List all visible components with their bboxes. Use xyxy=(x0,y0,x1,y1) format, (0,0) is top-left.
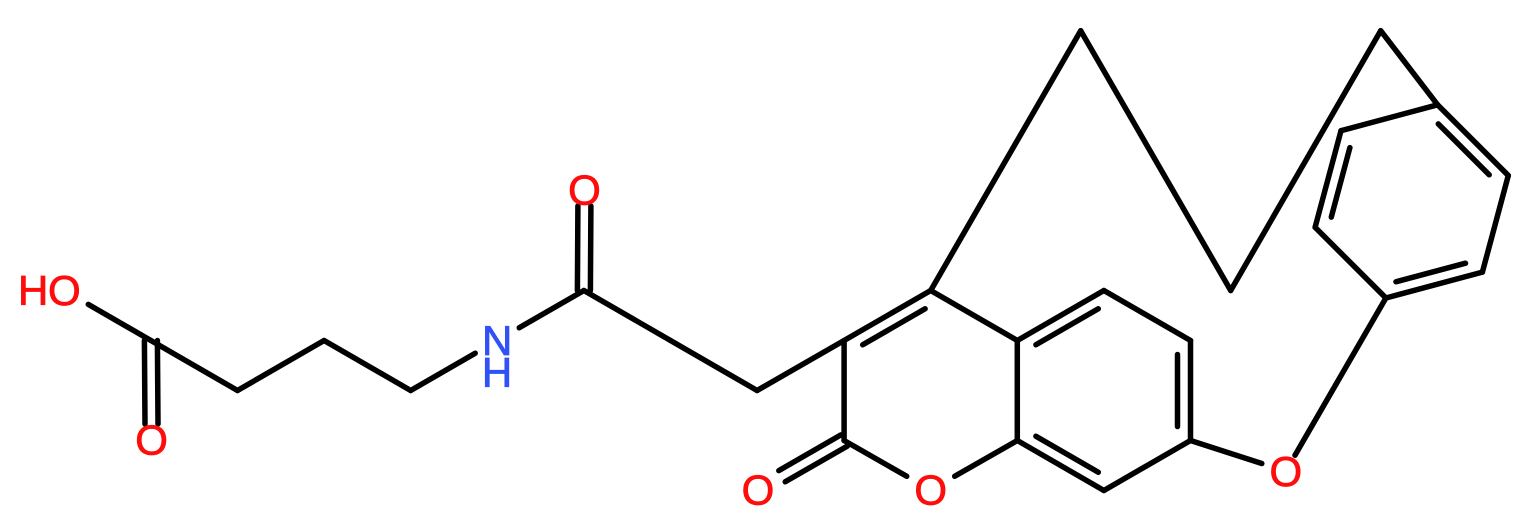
aromatic bond C4a=B5 main xyxy=(1017,291,1104,341)
bond CH2-N xyxy=(411,353,476,390)
bond A4-A5 xyxy=(1341,105,1438,131)
bond A6-W xyxy=(1315,227,1386,298)
bond HO-C carboxyl xyxy=(88,304,151,340)
aromatic bond B8=C8a inner xyxy=(1036,436,1098,472)
svg-text:O: O xyxy=(568,167,601,214)
bond Ar3-Ar2 xyxy=(841,341,847,441)
svg-text:O: O xyxy=(742,467,775,514)
macrocycle leg4 xyxy=(1381,31,1438,105)
bond C1-C2 xyxy=(151,341,238,391)
aromatic bond B6=B7 main xyxy=(1188,341,1194,441)
aromatic bond A3=A4 main xyxy=(1438,105,1509,176)
bond O1-C8a lactone xyxy=(955,441,1018,477)
bond C7-O ether xyxy=(1191,441,1262,464)
double bond amide C=O line1 xyxy=(575,206,581,291)
fused edge C8a-C4a xyxy=(1015,341,1021,441)
macrocycle leg1 xyxy=(931,31,1081,291)
double bond lactone C=O line1 xyxy=(785,446,847,482)
aromatic bond B8=C8a main xyxy=(1017,441,1104,491)
bond N-C amide xyxy=(519,291,584,328)
double bond amide C=O line2 xyxy=(588,206,594,291)
bond C2-C3 xyxy=(238,341,325,391)
aromatic bond W=A2 main xyxy=(1386,272,1483,298)
bond O-CH2 strap xyxy=(1295,385,1336,456)
bond C2-O1 lactone xyxy=(844,441,907,477)
svg-text:H: H xyxy=(18,267,48,314)
bond C4a-C4 xyxy=(931,291,1018,341)
bond C6-C7 xyxy=(671,341,758,391)
double bond lactone C=O line2 xyxy=(779,435,841,471)
svg-text:O: O xyxy=(914,467,947,514)
svg-text:O: O xyxy=(1269,448,1302,495)
bond CH2-C3coumarin xyxy=(757,341,844,391)
svg-text:O: O xyxy=(135,417,168,464)
bond B5-B6 xyxy=(1104,291,1191,341)
bond A2-A3 xyxy=(1482,176,1508,273)
aromatic bond A3=A4 inner xyxy=(1438,124,1489,175)
macrocycle leg2 xyxy=(1081,31,1231,291)
double bond coumarin C3=C4 inner xyxy=(863,309,925,345)
double bond acid C=O line2 xyxy=(142,341,148,425)
double bond coumarin C3=C4 main xyxy=(844,291,931,341)
aromatic bond A5=A6 main xyxy=(1315,131,1341,228)
svg-text:H: H xyxy=(482,349,512,396)
bond CH2-phenylene xyxy=(1336,298,1386,385)
aromatic bond A5=A6 inner xyxy=(1331,148,1350,218)
bond C5-C6 xyxy=(584,291,671,341)
aromatic bond B6=B7 inner xyxy=(1175,355,1181,427)
double bond acid C=O line1 xyxy=(155,341,161,425)
bond B7-B8 xyxy=(1104,441,1191,491)
svg-text:O: O xyxy=(48,267,81,314)
aromatic bond C4a=B5 inner xyxy=(1036,309,1098,345)
macrocycle leg3 xyxy=(1231,31,1381,291)
aromatic bond W=A2 inner xyxy=(1396,263,1466,282)
bond C3-C4 xyxy=(324,341,411,391)
